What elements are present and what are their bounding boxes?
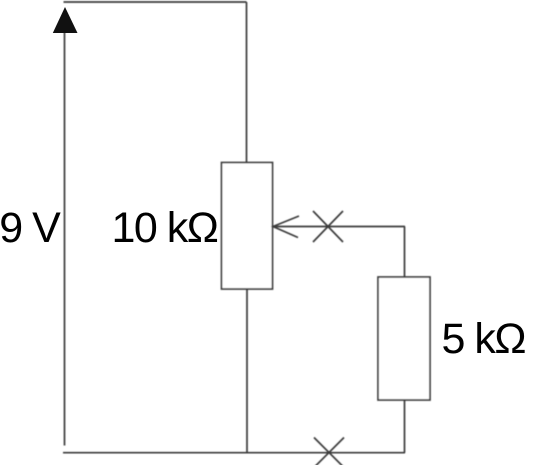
wiper wire horizontal <box>273 226 405 228</box>
resistor R2 body 5 k <box>378 277 430 400</box>
wire bottom rail <box>63 452 405 454</box>
wire left vertical 9V source <box>64 30 66 446</box>
node X on wiper wire <box>313 211 343 242</box>
svg-text:10 kΩ: 10 kΩ <box>112 204 218 252</box>
wire potentiometer bottom to ground rail <box>246 289 248 453</box>
source arrow 9V <box>53 7 78 33</box>
node X on bottom rail <box>314 438 344 465</box>
wire vertical into potentiometer top <box>246 2 248 163</box>
wire 5k resistor bottom to ground rail <box>404 400 406 453</box>
wire top from source to potentiometer <box>64 1 247 3</box>
svg-text:9 V: 9 V <box>0 204 61 252</box>
wiper arrowhead <box>273 216 299 238</box>
potentiometer R1 body 10 k <box>222 163 273 290</box>
svg-text:5 kΩ: 5 kΩ <box>442 315 526 363</box>
wire down to 5k resistor <box>404 227 406 278</box>
